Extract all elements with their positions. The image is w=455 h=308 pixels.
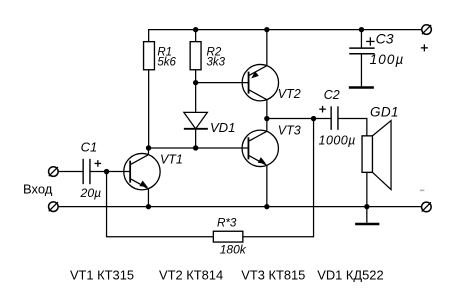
svg-text:100µ: 100µ	[370, 52, 405, 67]
svg-text:1000µ: 1000µ	[319, 133, 356, 147]
svg-text:VT3 КТ815: VT3 КТ815	[241, 267, 305, 282]
svg-text:5k6: 5k6	[157, 56, 176, 68]
svg-text:C3: C3	[376, 31, 394, 47]
svg-text:VT3: VT3	[278, 124, 301, 138]
svg-text:Вход: Вход	[23, 182, 53, 197]
svg-text:VT2 КТ814: VT2 КТ814	[159, 267, 223, 282]
svg-text:VD1: VD1	[210, 120, 235, 135]
svg-text:VT1: VT1	[160, 152, 183, 166]
svg-text:C2: C2	[324, 88, 340, 102]
svg-text:VT2: VT2	[278, 87, 301, 101]
svg-text:VD1 КД522: VD1 КД522	[317, 267, 383, 282]
svg-text:20µ: 20µ	[80, 186, 102, 200]
svg-text:180k: 180k	[220, 243, 247, 257]
svg-text:GD1: GD1	[370, 104, 399, 119]
svg-text:VT1 КТ315: VT1 КТ315	[70, 267, 134, 282]
svg-text:C1: C1	[81, 140, 98, 155]
svg-text:R*3: R*3	[217, 217, 237, 230]
svg-text:3k3: 3k3	[207, 56, 226, 68]
